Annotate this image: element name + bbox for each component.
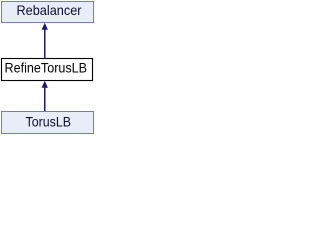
arrow TorusLB to RefineTorusLB (inheritance) [42, 81, 48, 111]
class inheritance diagram: TorusLB -> RefineTorusLB -> Rebalancer [0, 0, 95, 136]
node Rebalancer (base class box) [2, 2, 94, 23]
background [0, 0, 95, 136]
svg-text:RefineTorusLB: RefineTorusLB [5, 60, 88, 76]
svg-text:TorusLB: TorusLB [26, 114, 72, 130]
node TorusLB (derived class box) [2, 112, 94, 134]
arrow RefineTorusLB to Rebalancer (inheritance) [42, 23, 48, 58]
svg-text:Rebalancer: Rebalancer [17, 2, 82, 18]
node RefineTorusLB (current class box) [2, 59, 93, 81]
